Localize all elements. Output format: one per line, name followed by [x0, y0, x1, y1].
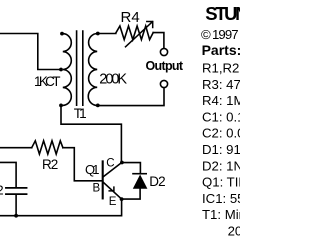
- svg-text:Parts:: Parts:: [202, 42, 240, 58]
- svg-text:Output: Output: [146, 59, 184, 73]
- svg-text:D1: 91V: D1: 91V: [202, 142, 240, 157]
- svg-text:C: C: [106, 158, 114, 170]
- Q1 emitter arrow: [109, 187, 114, 191]
- wire R2 left lead: [0, 147, 32, 149]
- wire R4 to output top: [153, 33, 164, 49]
- svg-text:Q1: TIP3055: Q1: TIP3055: [202, 175, 240, 190]
- wire secondary top to R4: [98, 33, 116, 35]
- svg-text:1997: 1997: [212, 27, 239, 42]
- wire C2 top lead: [0, 162, 16, 187]
- transistor Q1 collector lead: [104, 162, 122, 176]
- svg-text:2000: 2000: [228, 224, 240, 239]
- R4 wiper arrow: [126, 22, 153, 47]
- svg-text:R2: R2: [42, 157, 58, 172]
- diode D2 triangle: [133, 175, 148, 189]
- resistor R4: [116, 26, 153, 40]
- svg-text:D2: 1N4007: D2: 1N4007: [202, 158, 240, 173]
- junction dot secondary bottom: [96, 104, 100, 108]
- output terminal bottom: [160, 80, 167, 87]
- svg-text:D2: D2: [149, 174, 165, 189]
- svg-text:1KCT: 1KCT: [34, 74, 61, 89]
- transistor Q1 base bar: [102, 161, 104, 198]
- svg-text:R1,R2: 1K: R1,R2: 1K: [202, 61, 240, 76]
- wire feed to center tap: [0, 34, 60, 70]
- junction dot primary top: [60, 32, 64, 36]
- svg-text:C1: 0.1: C1: 0.1: [202, 109, 240, 124]
- svg-text:C2: 0.01: C2: 0.01: [202, 126, 240, 141]
- transformer T1 secondary winding: [88, 34, 97, 106]
- junction dot secondary top: [96, 32, 100, 36]
- junction dot C2 bus: [14, 214, 18, 218]
- junction dot collector: [120, 161, 124, 165]
- svg-text:E: E: [109, 196, 117, 208]
- diode D2 cathode bar: [133, 173, 146, 175]
- transformer T1 core: [77, 31, 83, 105]
- resistor R2: [32, 141, 63, 154]
- wire R2 to base: [63, 148, 102, 181]
- wire bus bottom: [0, 199, 122, 216]
- transformer T1 primary winding: [63, 34, 72, 106]
- svg-text:IC1: 555: IC1: 555: [202, 191, 240, 206]
- svg-text:R4: R4: [121, 9, 140, 26]
- svg-text:STUN GUN: STUN GUN: [205, 3, 240, 24]
- junction dot center tap: [59, 68, 63, 72]
- junction dot emitter: [120, 197, 124, 201]
- svg-text:T1: Mini: T1: Mini: [202, 207, 240, 222]
- wire C2 bottom lead: [15, 195, 17, 216]
- svg-text:C2: C2: [0, 182, 4, 197]
- output terminal top: [160, 48, 167, 55]
- junction dot primary bottom: [59, 104, 63, 108]
- svg-text:©: ©: [201, 27, 211, 42]
- transistor Q1 emitter lead: [104, 183, 122, 199]
- wire diode to emitter: [122, 189, 141, 199]
- svg-text:200K: 200K: [99, 71, 127, 87]
- svg-text:R3: 470K: R3: 470K: [202, 77, 240, 92]
- svg-text:Q1: Q1: [85, 162, 100, 177]
- svg-text:R4: 1MEG: R4: 1MEG: [202, 93, 240, 108]
- capacitor C2: [6, 188, 27, 194]
- wire primary bottom to collector: [61, 105, 121, 162]
- wire collector to diode: [122, 163, 140, 174]
- wire output bottom to secondary: [98, 88, 164, 106]
- svg-text:B: B: [93, 183, 101, 195]
- svg-text:T1: T1: [74, 106, 87, 121]
